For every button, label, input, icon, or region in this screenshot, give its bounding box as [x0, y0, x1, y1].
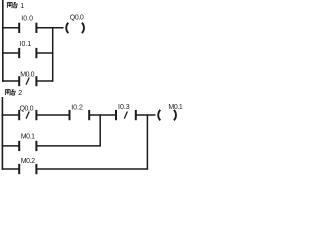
contact I0.2 (normally open) — [70, 110, 90, 120]
svg-text:M0.1: M0.1 — [168, 104, 182, 111]
wire from I0.0 to coil Q0.0 — [36, 27, 63, 29]
rung 6 wire from rail to contact M0.2 — [2, 168, 19, 170]
svg-text:I0.0: I0.0 — [21, 16, 33, 23]
rung 2 wire from rail to contact I0.1 — [2, 52, 19, 54]
slash of NC contact I0.3 — [124, 112, 127, 119]
wire from M0.1 to node A — [36, 145, 101, 147]
svg-text:2: 2 — [18, 90, 22, 97]
network 1 title label 网络 1 — [7, 2, 17, 7]
network 2 title label 网络 2 — [5, 90, 15, 95]
wire from I0.2 to contact I0.3 — [89, 114, 116, 116]
junction node network 1 (parallel branch vertical) — [52, 27, 54, 82]
svg-text:M0.1: M0.1 — [21, 133, 35, 140]
contact M0.2 (normally open) — [19, 164, 36, 174]
svg-text:Q0.0: Q0.0 — [70, 14, 84, 21]
coil M0.1 — [158, 110, 176, 120]
slash of NC contact M0.0 — [26, 78, 29, 85]
contact M0.1 (normally open) — [19, 141, 36, 151]
svg-text:M0.2: M0.2 — [21, 158, 35, 165]
wire from I0.3 to coil M0.1 — [136, 114, 156, 116]
network 1 left power rail — [2, 0, 4, 82]
contact Q0.0 (normally closed) — [19, 110, 36, 120]
rung 1 wire from rail to contact I0.0 — [2, 27, 19, 29]
svg-text:Q0.0: Q0.0 — [20, 105, 34, 112]
wire from I0.1 to junction — [36, 52, 53, 54]
network 2 left power rail — [1, 97, 3, 170]
wire from M0.0 to junction — [36, 80, 53, 82]
rung 5 wire from rail to contact M0.1 — [2, 145, 19, 147]
junction node A vertical (M0.1 branch) — [99, 114, 101, 146]
contact I0.0 (normally open) — [19, 23, 36, 33]
slash of NC contact Q0.0 — [26, 112, 29, 119]
junction node B vertical (M0.2 branch) — [146, 114, 148, 169]
rung 3 wire from rail to contact M0.0 — [2, 80, 19, 82]
svg-text:I0.3: I0.3 — [118, 104, 130, 111]
svg-text:1: 1 — [20, 3, 24, 10]
svg-text:M0.0: M0.0 — [20, 72, 34, 79]
contact M0.0 (normally closed) — [19, 76, 36, 86]
svg-text:I0.2: I0.2 — [71, 105, 83, 112]
rung 4 wire from rail to contact Q0.0 — [2, 114, 19, 116]
wire from M0.2 to node B — [36, 168, 148, 170]
wire from Q0.0 to contact I0.2 — [36, 114, 69, 116]
contact I0.1 (normally open) — [19, 48, 36, 58]
contact I0.3 (normally closed) — [116, 110, 136, 120]
svg-text:I0.1: I0.1 — [20, 41, 32, 48]
coil Q0.0 — [66, 23, 84, 33]
